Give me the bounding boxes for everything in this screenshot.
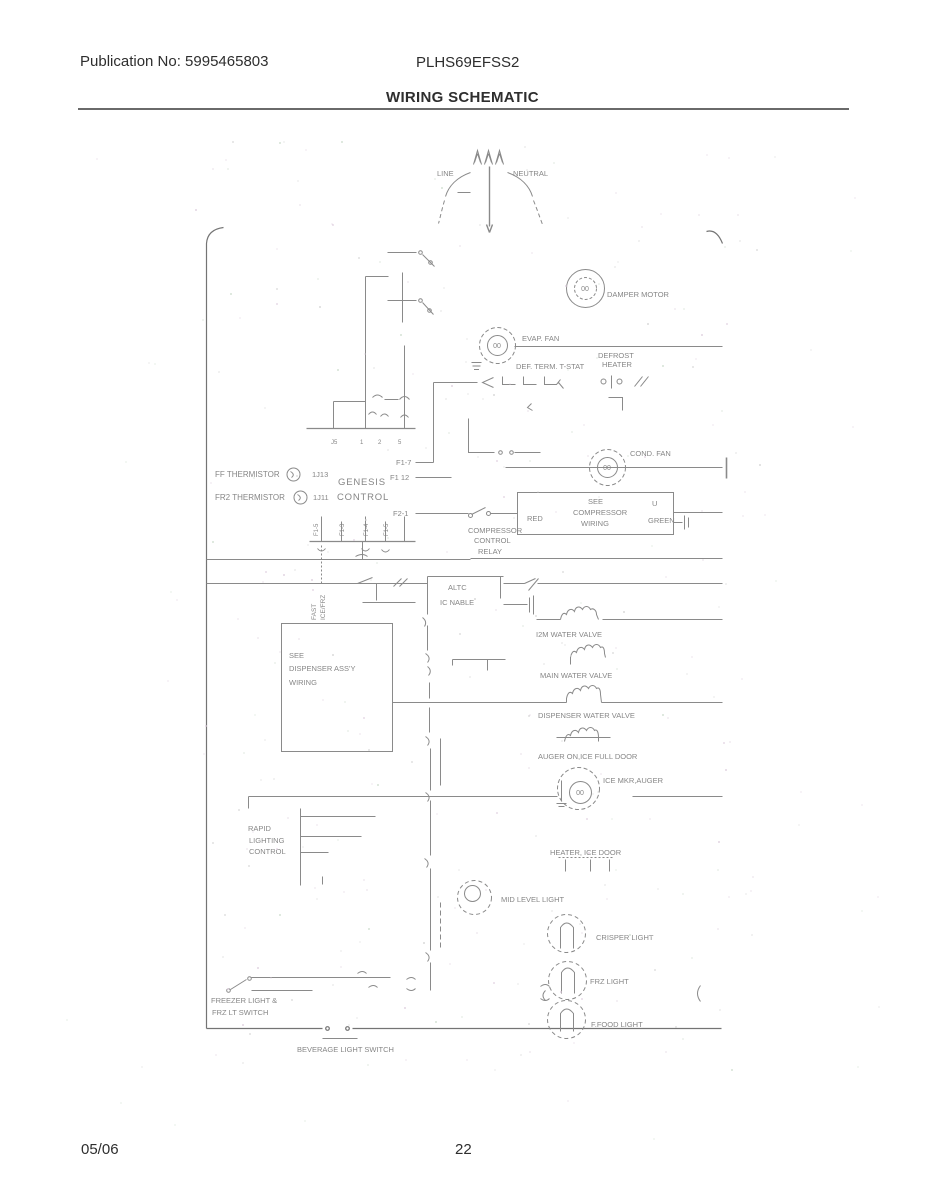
break marks on defrost wire bbox=[635, 377, 649, 387]
wire: pin F1-7 bbox=[416, 462, 434, 464]
wire: fast ice/frz signal (dotted) bbox=[321, 546, 323, 584]
solenoid L3 dispenser water valve coil with wires bbox=[393, 686, 723, 703]
wire: GREEN lead out of compressor box bbox=[674, 512, 723, 514]
svg-text:MAIN WATER VALVE: MAIN WATER VALVE bbox=[540, 671, 612, 680]
connector breaks (freezer light wires) bbox=[358, 972, 378, 988]
connector breaks (frz lamp lead) bbox=[541, 985, 550, 1001]
wire: neutral run below compressor bbox=[471, 558, 723, 560]
wire: lamp feed segment (dashed) bbox=[440, 903, 442, 949]
wire: NEUTRAL lead bbox=[508, 173, 543, 225]
wire: F1-7 to defrost circuit with arrow bbox=[434, 378, 494, 388]
svg-text:HEATER, ICE DOOR: HEATER, ICE DOOR bbox=[550, 848, 622, 857]
switch SW6 beverage light switch bar bbox=[323, 1038, 358, 1040]
wire: pin F2-1 to compressor relay bbox=[416, 513, 469, 515]
svg-text:FAST: FAST bbox=[311, 604, 318, 620]
solenoid L4 auger/ice full door coil bbox=[565, 728, 599, 742]
svg-text:U: U bbox=[652, 499, 657, 508]
switch SW1 door switch bbox=[388, 251, 435, 267]
heater R2 ice door heater bbox=[559, 858, 615, 872]
wire: defrost heater drop bbox=[609, 398, 623, 411]
svg-text:DAMPER MOTOR: DAMPER MOTOR bbox=[607, 290, 670, 299]
wire: auger/ice full door lead bbox=[557, 737, 611, 739]
solenoid L2 main water valve coil bbox=[571, 645, 606, 665]
wire: evap fan to neutral side bbox=[515, 346, 723, 348]
svg-text:FF THERMISTOR: FF THERMISTOR bbox=[215, 470, 280, 479]
svg-text:F1-5: F1-5 bbox=[314, 523, 320, 536]
wire: ice enable to water valves bbox=[538, 583, 723, 585]
svg-text:DISPENSER WATER VALVE: DISPENSER WATER VALVE bbox=[538, 711, 635, 720]
heater R1 defrost heater terminals bbox=[601, 376, 622, 389]
svg-text:1J11: 1J11 bbox=[313, 493, 329, 502]
capacitor C2 (ice enable) bbox=[504, 596, 534, 615]
lamp DS3 freezer light bbox=[549, 962, 587, 1000]
break marks on line bus bbox=[394, 579, 408, 587]
svg-text:MID LEVEL LIGHT: MID LEVEL LIGHT bbox=[501, 895, 564, 904]
svg-text:F1-4: F1-4 bbox=[364, 523, 370, 536]
wire: freezer light switch bottom lead bbox=[252, 990, 313, 992]
wire: pin F1-12 bbox=[416, 477, 452, 479]
svg-text:IC NABLE: IC NABLE bbox=[440, 598, 474, 607]
svg-text:EVAP. FAN: EVAP. FAN bbox=[522, 334, 559, 343]
thermistor RT2 FRZ thermistor symbol bbox=[294, 491, 307, 504]
svg-text:LINE: LINE bbox=[437, 169, 454, 178]
lamp DS4 fresh food light bbox=[548, 1001, 586, 1039]
switch SW3 ice enable contact with arrow bbox=[504, 579, 539, 591]
svg-text:FREEZER LIGHT &: FREEZER LIGHT & bbox=[211, 996, 277, 1005]
svg-text:5: 5 bbox=[398, 440, 402, 446]
svg-text:CRISPER LIGHT: CRISPER LIGHT bbox=[596, 933, 654, 942]
wire: F1 pin to line bus bbox=[362, 542, 364, 560]
thermistor RT1 FF thermistor symbol bbox=[287, 468, 300, 481]
svg-text:GREEN: GREEN bbox=[648, 516, 675, 525]
svg-text:WIRING: WIRING bbox=[289, 678, 317, 687]
svg-text:BEVERAGE LIGHT SWITCH: BEVERAGE LIGHT SWITCH bbox=[297, 1045, 394, 1054]
svg-text:LIGHTING: LIGHTING bbox=[249, 836, 285, 845]
wire: line feed to control board bbox=[366, 277, 389, 429]
wire: switch interconnect vertical bbox=[402, 273, 404, 323]
connector breaks on center bus bbox=[423, 618, 431, 962]
svg-text:RAPID: RAPID bbox=[248, 824, 272, 833]
svg-text:FRZ LT SWITCH: FRZ LT SWITCH bbox=[212, 1008, 268, 1017]
svg-text:GENESIS: GENESIS bbox=[338, 477, 386, 488]
compressor wiring box (see compressor wiring) bbox=[518, 493, 674, 535]
wire: lighting control taps bbox=[301, 817, 376, 853]
wire: line bus bbox=[207, 583, 428, 585]
connector arc (frz lamp lead) bbox=[543, 991, 546, 1001]
svg-text:F2-1: F2-1 bbox=[393, 509, 408, 518]
wire: auger feed segment bbox=[440, 739, 442, 786]
capacitor C1 plate bbox=[363, 602, 416, 604]
svg-text:CONTROL: CONTROL bbox=[474, 536, 511, 545]
svg-text:F1-5: F1-5 bbox=[384, 523, 390, 536]
svg-text:F1-7: F1-7 bbox=[396, 458, 411, 467]
svg-text:RELAY: RELAY bbox=[478, 547, 502, 556]
svg-text:F1-3: F1-3 bbox=[340, 523, 346, 536]
switch SW5 freezer light switch bbox=[227, 977, 252, 993]
svg-text:ALTC: ALTC bbox=[448, 583, 467, 592]
svg-text:1J13: 1J13 bbox=[312, 470, 328, 479]
svg-text:J5: J5 bbox=[331, 440, 338, 446]
lighting control connections vertical bbox=[300, 809, 302, 886]
svg-text:HEATER: HEATER bbox=[602, 360, 632, 369]
lamp DS2 crisper light bbox=[548, 915, 586, 953]
svg-text:CONTROL: CONTROL bbox=[249, 847, 286, 856]
connector terminals (cond fan) bbox=[499, 451, 541, 455]
power cord plug P1 bbox=[474, 151, 504, 165]
wire: RED lead into compressor box bbox=[491, 513, 518, 515]
svg-text:SEE: SEE bbox=[289, 651, 304, 660]
motor M4 ice maker/auger bbox=[558, 768, 600, 810]
svg-text:COMPRESSOR: COMPRESSOR bbox=[468, 526, 523, 535]
svg-text:I2M WATER VALVE: I2M WATER VALVE bbox=[536, 630, 602, 639]
wire: drop to capacitor bbox=[376, 584, 378, 601]
connector J5 genesis control board (top edge) bbox=[307, 395, 416, 429]
svg-text:FRZ LIGHT: FRZ LIGHT bbox=[590, 977, 629, 986]
ground (compressor green lead) bbox=[674, 516, 689, 530]
defrost termination thermostat contacts bbox=[503, 377, 564, 389]
connector arrow mark bbox=[528, 404, 533, 411]
wire: switch to connector J5 bbox=[404, 346, 406, 429]
svg-text:00: 00 bbox=[576, 790, 584, 797]
motor M2 evaporator fan bbox=[480, 328, 516, 364]
switch SW2 door switch bbox=[388, 299, 434, 315]
svg-text:F.FOOD LIGHT: F.FOOD LIGHT bbox=[591, 1020, 643, 1029]
wire: condenser fan feed bbox=[469, 419, 495, 453]
connector F1 genesis control board (bottom edge) bbox=[310, 517, 416, 553]
motor M1 damper motor bbox=[567, 270, 605, 308]
svg-text:00: 00 bbox=[493, 343, 501, 350]
switch blade on line bus bbox=[358, 578, 373, 584]
svg-text:DEFROST: DEFROST bbox=[598, 351, 634, 360]
svg-text:00: 00 bbox=[581, 286, 589, 293]
lamp DS1 mid level light bbox=[458, 881, 492, 915]
svg-text:NEUTRAL: NEUTRAL bbox=[513, 169, 548, 178]
wire: neutral bus (left) bbox=[207, 559, 471, 561]
wire: cord ground lead with arrow bbox=[487, 167, 493, 233]
wire: condenser fan to neutral side bbox=[506, 467, 723, 469]
node: water valve common tie bbox=[453, 660, 506, 671]
solenoid L1 I2M water valve coil bbox=[561, 607, 599, 620]
connector break on neutral bus bbox=[356, 555, 368, 557]
svg-text:ICE/FRZ: ICE/FRZ bbox=[320, 595, 327, 620]
terminal bracket right edge bbox=[726, 458, 728, 479]
dispenser assembly box (see dispenser wiring) bbox=[282, 624, 393, 752]
switch SW6 beverage light switch contacts bbox=[326, 1027, 350, 1031]
svg-text:COND. FAN: COND. FAN bbox=[630, 449, 671, 458]
svg-text:RED: RED bbox=[527, 514, 543, 523]
relay K1 compressor control relay contacts bbox=[469, 508, 491, 518]
svg-text:00: 00 bbox=[603, 465, 611, 472]
svg-text:2: 2 bbox=[378, 440, 382, 446]
svg-text:DEF. TERM. T-STAT: DEF. TERM. T-STAT bbox=[516, 362, 585, 371]
svg-text:DISPENSER ASS'Y: DISPENSER ASS'Y bbox=[289, 664, 355, 673]
wire: ice water valve to right bbox=[603, 619, 723, 621]
wire: riser from F1-7 bbox=[416, 383, 434, 463]
svg-text:CONTROL: CONTROL bbox=[337, 492, 389, 503]
connector breaks (lamp feed) bbox=[407, 978, 416, 991]
wire: ice maker row bbox=[249, 797, 723, 809]
pin stub (lighting control) bbox=[322, 877, 324, 885]
svg-text:COMPRESSOR: COMPRESSOR bbox=[573, 508, 628, 517]
motor M3 condenser fan bbox=[590, 450, 626, 486]
svg-text:WIRING: WIRING bbox=[581, 519, 609, 528]
ground (evap fan) bbox=[472, 363, 482, 370]
svg-text:SEE: SEE bbox=[588, 497, 603, 506]
wire: freezer light switch top lead bbox=[252, 977, 391, 979]
wire: LINE lead bbox=[439, 173, 471, 224]
svg-text:1: 1 bbox=[360, 440, 364, 446]
wire: center vertical bus bbox=[428, 577, 431, 991]
wire: lead to ice water valve bbox=[537, 619, 561, 621]
ground (ice maker) bbox=[557, 781, 567, 807]
svg-text:AUGER ON,ICE FULL DOOR: AUGER ON,ICE FULL DOOR bbox=[538, 752, 638, 761]
connector arc (right lamp lead) bbox=[698, 986, 701, 1002]
ALTC ice enable box bbox=[428, 577, 504, 599]
svg-text:F1 12: F1 12 bbox=[390, 473, 409, 482]
svg-text:ICE MKR,AUGER: ICE MKR,AUGER bbox=[603, 776, 664, 785]
